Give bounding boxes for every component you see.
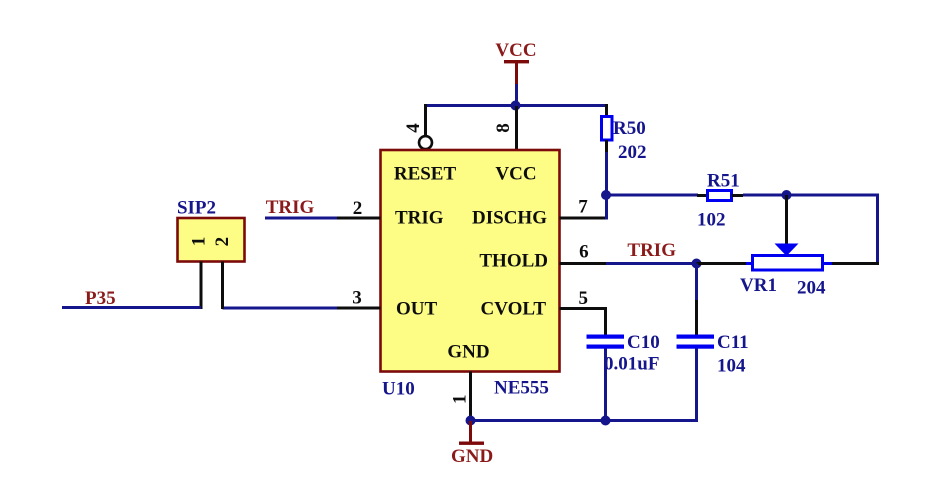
wire C10 bottom (604, 349, 607, 423)
svg-text:R50: R50 (613, 118, 646, 139)
svg-text:4: 4 (403, 123, 424, 133)
wire VCC stub (515, 84, 518, 106)
wire VR1 right connection (831, 262, 879, 265)
resistor R51 left lead (697, 194, 708, 197)
resistor R50 body (602, 117, 613, 141)
svg-text:VCC: VCC (495, 40, 536, 61)
power symbol VCC (495, 40, 536, 84)
U10 pin 3 lead (337, 307, 381, 310)
wire DISCHG to R51 (606, 194, 698, 197)
capacitor C11 top lead (695, 300, 698, 335)
wire C11 bottom (695, 349, 698, 423)
ground symbol GND (451, 421, 493, 467)
resistor R50 bottom lead (605, 140, 608, 152)
svg-text:2: 2 (212, 237, 233, 247)
capacitor C10 top plate (587, 335, 625, 339)
potentiometer VR1 body (753, 256, 823, 271)
wire VCC horizontal rail (424, 104, 608, 107)
wire junction to VR1 left (697, 262, 747, 265)
resistor R51 body (708, 191, 732, 201)
resistor R51 right lead (732, 194, 744, 197)
svg-text:7: 7 (578, 197, 588, 218)
IC U10 NE555 body (381, 150, 560, 372)
svg-text:P35: P35 (85, 288, 116, 309)
U10 pin 4 inversion bubble (419, 136, 432, 149)
svg-text:202: 202 (618, 142, 647, 163)
wire R51 to top right corner (743, 194, 879, 197)
U10 pin6 wire to junction (606, 262, 697, 265)
U10 pin 7 lead (560, 217, 608, 220)
svg-text:VCC: VCC (495, 164, 536, 185)
potentiometer VR1 wiper lead (785, 195, 788, 246)
wire right vertical (876, 194, 879, 266)
svg-text:CVOLT: CVOLT (481, 299, 547, 320)
resistor R50 top lead (605, 104, 608, 117)
svg-text:THOLD: THOLD (479, 251, 548, 272)
svg-text:8: 8 (493, 123, 514, 133)
svg-text:TRIG: TRIG (266, 197, 315, 218)
wire OUT to connector pin 2 (223, 307, 338, 310)
U10 pin 8 lead (515, 106, 518, 150)
wire THOLD junction down to C11 (695, 264, 698, 303)
svg-text:OUT: OUT (396, 299, 438, 320)
svg-text:TRIG: TRIG (627, 240, 676, 261)
svg-text:U10: U10 (382, 379, 415, 400)
SIP2 pin 1 lead (200, 262, 203, 310)
svg-text:102: 102 (697, 210, 726, 231)
potentiometer VR1 right stub (823, 262, 833, 265)
svg-text:RESET: RESET (394, 164, 457, 185)
capacitor C11 bottom plate (677, 345, 715, 349)
wire R50 to pin7 junction (605, 152, 608, 220)
connector J SIP2 body (178, 218, 245, 262)
svg-text:C11: C11 (717, 332, 749, 353)
svg-text:NE555: NE555 (494, 378, 549, 399)
svg-text:SIP2: SIP2 (177, 198, 216, 219)
svg-text:GND: GND (447, 342, 489, 363)
svg-text:TRIG: TRIG (395, 208, 444, 229)
node VCC junction (511, 101, 521, 111)
svg-text:DISCHG: DISCHG (472, 208, 547, 229)
potentiometer VR1 left stub (745, 262, 753, 265)
svg-text:GND: GND (451, 446, 493, 467)
node THOLD junction (692, 259, 702, 269)
svg-text:3: 3 (352, 288, 362, 309)
SIP2 pin 2 lead (221, 262, 224, 310)
potentiometer VR1 wiper arrow (775, 244, 799, 257)
wire CVOLT down to C10 (604, 307, 607, 335)
svg-text:R51: R51 (707, 171, 740, 192)
capacitor C10 bottom plate (587, 345, 625, 349)
node DISCHG junction (601, 190, 611, 200)
U10 pin 6 lead (560, 262, 607, 265)
U10 pin 5 lead (560, 307, 608, 310)
wire net TRIG left (265, 217, 337, 220)
node C10 ground junction (601, 416, 611, 426)
U10 pin 4 lead (424, 104, 427, 136)
wire net P35 (62, 306, 201, 309)
capacitor C11 top plate (677, 335, 715, 339)
svg-text:0.01uF: 0.01uF (604, 354, 659, 375)
svg-text:C10: C10 (627, 332, 660, 353)
svg-text:1: 1 (188, 237, 209, 247)
svg-text:VR1: VR1 (740, 275, 777, 296)
svg-text:2: 2 (353, 198, 363, 219)
svg-text:1: 1 (449, 394, 470, 404)
wire ground rail (471, 419, 699, 422)
svg-text:104: 104 (717, 356, 746, 377)
svg-text:204: 204 (797, 278, 826, 299)
node R51 wiper junction (782, 190, 792, 200)
node GND junction (466, 416, 476, 426)
U10 pin 1 lead (469, 372, 472, 422)
svg-text:5: 5 (579, 288, 589, 309)
U10 pin 2 lead (337, 217, 381, 220)
svg-text:6: 6 (579, 241, 589, 262)
